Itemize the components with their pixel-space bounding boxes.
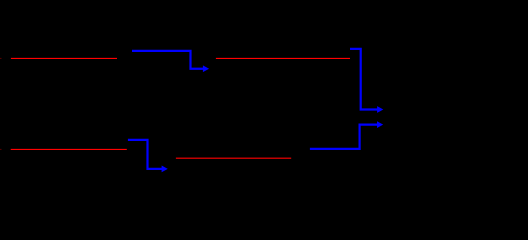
execution segment B2 (red, bottom-middle lifeline) — [176, 157, 291, 159]
execution segment A2 (red, top-right lifeline) — [216, 57, 350, 59]
execution segment A1 (red, top-left lifeline) — [0, 57, 117, 59]
jump arrow J3 (blue, call from bottom lifeline stepping down) — [128, 140, 168, 172]
execution segment B1 (red, bottom-left lifeline) — [0, 148, 127, 150]
jump arrow J2 (blue, from top row down to middle-right target) — [350, 49, 383, 113]
jump arrow J1 (blue, call from top lifeline stepping down) — [132, 51, 209, 72]
jump arrow J4 (blue, return from bottom row up to middle-right target) — [310, 121, 383, 149]
